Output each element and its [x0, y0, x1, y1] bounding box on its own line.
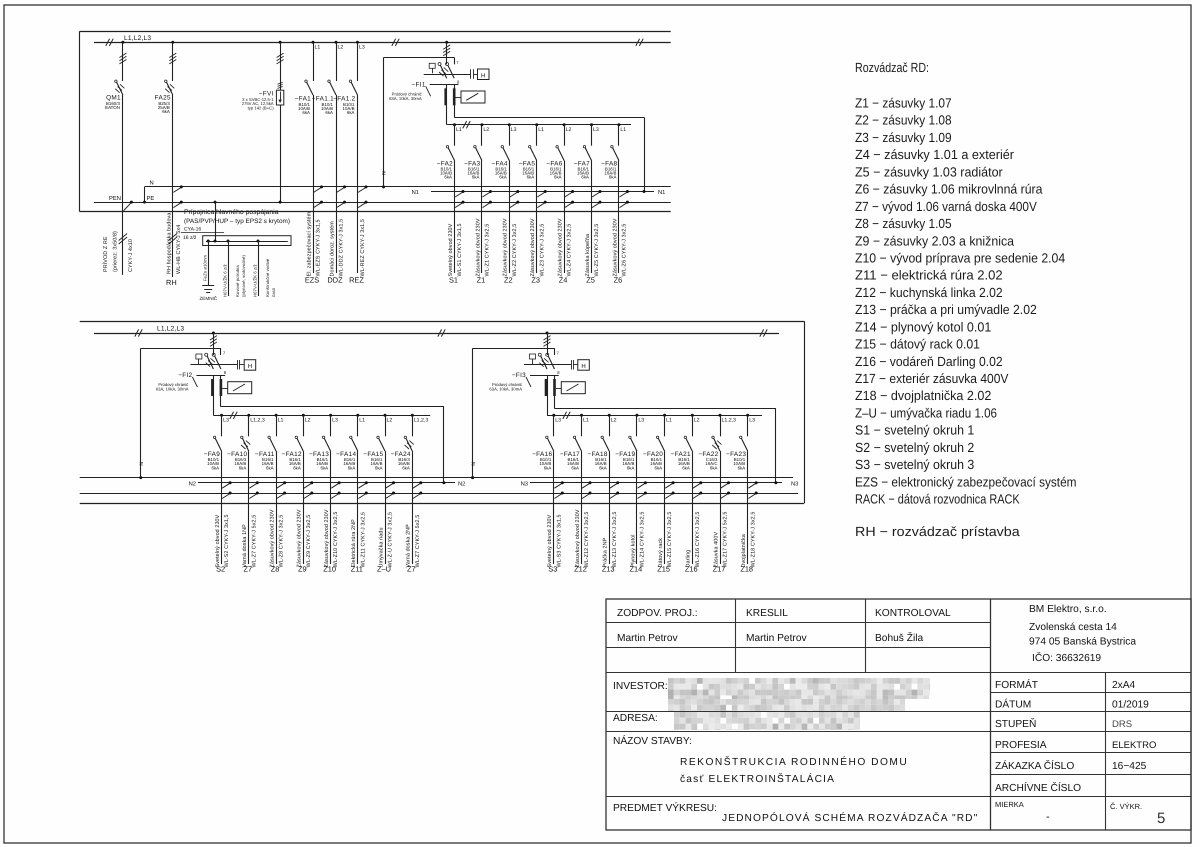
bus N3 — [521, 481, 799, 488]
title block field STUPEŇ — [995, 718, 1132, 730]
svg-text:Z18: Z18 — [740, 565, 753, 574]
svg-text:Z2: Z2 — [504, 276, 513, 285]
bus L1,L2,L3 (row 1) — [94, 35, 671, 46]
svg-text:WL-Z15 CYKY-J 3x2,5: WL-Z15 CYKY-J 3x2,5 — [667, 512, 673, 568]
svg-text:Z11 − elektrická rúra 2.02: Z11 − elektrická rúra 2.02 — [855, 268, 1003, 283]
svg-text:L3: L3 — [593, 127, 599, 133]
svg-text:N2: N2 — [458, 481, 465, 488]
svg-text:REKONŠTRUKCIA RODINNÉHO DOMU: REKONŠTRUKCIA RODINNÉHO DOMU — [680, 756, 908, 768]
legend entry Z2 — [855, 113, 952, 128]
breaker FA1.2 feeding REZ — [333, 41, 367, 285]
svg-text:N3: N3 — [521, 481, 528, 488]
svg-text:KONTROLOVAL: KONTROLOVAL — [875, 608, 951, 619]
breaker FA18 output Z13 — [588, 414, 620, 574]
title block field KONTROLOVAL — [875, 608, 951, 644]
svg-text:L1,L2,L3: L1,L2,L3 — [157, 326, 184, 333]
svg-text:Zásuvkový obvod 230V: Zásuvkový obvod 230V — [530, 218, 536, 276]
svg-text:Z16 − vodáreň Darling 0.02: Z16 − vodáreň Darling 0.02 — [855, 354, 1003, 369]
breaker FA14 output Z11 — [336, 414, 368, 574]
title block company address — [1029, 604, 1136, 664]
svg-text:WL-HB CYKY-J 5x4: WL-HB CYKY-J 5x4 — [176, 225, 182, 274]
svg-text:L2: L2 — [611, 418, 617, 424]
svg-text:Prípojnica hlavného pospájania: Prípojnica hlavného pospájania — [184, 209, 279, 216]
svg-text:PE: PE — [147, 196, 155, 202]
svg-text:WL-S1 CYKY-J 3x1,5: WL-S1 CYKY-J 3x1,5 — [457, 223, 463, 276]
svg-text:EZS − elektronický zabezpečova: EZS − elektronický zabezpečovací systém — [855, 474, 1077, 489]
svg-text:63A, 10kA, 30mA: 63A, 10kA, 30mA — [389, 96, 422, 101]
svg-text:RH: RH — [166, 278, 177, 287]
legend entry Z10 — [855, 251, 1065, 266]
sub-bus after FI2 (row 2) — [213, 412, 430, 419]
svg-text:6kA: 6kA — [472, 175, 480, 180]
svg-text:6kA: 6kA — [293, 465, 301, 470]
svg-text:časti: časti — [271, 288, 276, 297]
svg-text:L1: L1 — [666, 418, 672, 424]
svg-text:WL-Z13 CYKY-J 3x2,5: WL-Z13 CYKY-J 3x2,5 — [612, 512, 618, 568]
svg-text:ZEMNIČ: ZEMNIČ — [200, 295, 218, 301]
svg-text:Z14: Z14 — [630, 565, 643, 574]
svg-text:Zásuvkový obvod 230V: Zásuvkový obvod 230V — [575, 509, 581, 567]
svg-text:6kA: 6kA — [710, 465, 718, 470]
svg-text:Zvolenská cesta 14: Zvolenská cesta 14 — [1029, 622, 1117, 633]
svg-text:Z11: Z11 — [351, 565, 363, 574]
residual current device FI3 — [471, 332, 778, 485]
svg-text:L3: L3 — [511, 127, 517, 133]
svg-text:N: N — [382, 171, 388, 175]
svg-text:S2 − svetelný okruh 2: S2 − svetelný okruh 2 — [855, 440, 974, 455]
svg-text:NÁZOV STAVBY:: NÁZOV STAVBY: — [613, 735, 692, 747]
svg-text:Z12: Z12 — [574, 565, 587, 574]
breaker FA20 output Z15 — [643, 414, 675, 574]
title block field ZÁKAZKA ČÍSLO — [995, 760, 1147, 772]
svg-text:Svetelný obvod 230V: Svetelný obvod 230V — [448, 223, 454, 276]
svg-text:L1,2,3: L1,2,3 — [722, 418, 737, 424]
svg-text:Z10: Z10 — [323, 565, 336, 574]
breaker FA2 output S1 — [437, 123, 465, 284]
equipotential busbar Prípojnica hlavného pospájania — [181, 201, 291, 246]
svg-text:WL-EZS CYKY-J 3x1,5: WL-EZS CYKY-J 3x1,5 — [316, 219, 322, 276]
svg-text:L1,2,3: L1,2,3 — [250, 418, 265, 424]
svg-text:Zásuvkový obvod 230V: Zásuvkový obvod 230V — [475, 218, 481, 276]
svg-text:Zásuvka kúpeľňa: Zásuvka kúpeľňa — [585, 234, 591, 277]
svg-text:WL-Z8 CYKY-J 3x2,5: WL-Z8 CYKY-J 3x2,5 — [279, 515, 285, 568]
svg-text:L3: L3 — [638, 418, 644, 424]
title block grid — [606, 599, 1191, 830]
svg-text:WL-Z9 CYKY-J 3x2,5: WL-Z9 CYKY-J 3x2,5 — [306, 515, 312, 568]
svg-text:Z17: Z17 — [713, 565, 726, 574]
svg-text:L1: L1 — [583, 418, 589, 424]
svg-text:974 05 Banská Bystrica: 974 05 Banská Bystrica — [1029, 637, 1136, 648]
svg-text:6kA: 6kA — [609, 175, 617, 180]
ground electrode ZEMNIČ — [200, 240, 218, 301]
legend entry Z18 — [855, 388, 991, 403]
svg-text:6kA: 6kA — [266, 465, 274, 470]
breaker FA3 output Z1 — [464, 123, 492, 284]
svg-text:WL-Z3 CYKY-J 3x2,5: WL-Z3 CYKY-J 3x2,5 — [539, 224, 545, 277]
svg-text:16−425: 16−425 — [1112, 761, 1147, 772]
svg-text:REZ: REZ — [349, 276, 364, 285]
breaker FA5 output Z3 — [519, 123, 547, 284]
svg-text:−FI3: −FI3 — [512, 372, 526, 379]
svg-text:63A, 10kA, 30mA: 63A, 10kA, 30mA — [489, 387, 522, 392]
bus N (row 1) — [143, 180, 671, 203]
svg-text:16 z/ž: 16 z/ž — [183, 235, 197, 241]
svg-text:L1,L2,L3: L1,L2,L3 — [124, 35, 151, 42]
bus N2 — [189, 481, 466, 488]
svg-text:Z7: Z7 — [243, 565, 252, 574]
svg-text:6kA: 6kA — [527, 175, 535, 180]
bus PE / PEN (row 1) — [94, 196, 671, 202]
title block field ARCHÍVNE ČÍSLO — [995, 782, 1081, 794]
svg-text:N1: N1 — [412, 190, 419, 196]
svg-text:DÁTUM: DÁTUM — [995, 699, 1031, 711]
svg-text:BM Elektro, s.r.o.: BM Elektro, s.r.o. — [1029, 604, 1107, 615]
surge arrester FVI — [242, 41, 284, 204]
svg-text:H: H — [581, 363, 585, 370]
svg-text:Konštrukčné vodivé: Konštrukčné vodivé — [265, 258, 270, 297]
svg-text:WL-S3 CYKY-J 3x1,5: WL-S3 CYKY-J 3x1,5 — [556, 514, 562, 567]
svg-text:N: N — [150, 180, 154, 186]
svg-text:L1: L1 — [278, 418, 284, 424]
svg-text:Elektrická rúra 2NP: Elektrická rúra 2NP — [351, 519, 357, 568]
svg-text:-: - — [1046, 811, 1050, 823]
svg-text:6kA: 6kA — [554, 175, 562, 180]
svg-text:RH hospodárska budova: RH hospodárska budova — [166, 213, 172, 274]
svg-text:6kA: 6kA — [347, 110, 355, 115]
svg-text:WL-Z11 CYKY-J 3x2,5: WL-Z11 CYKY-J 3x2,5 — [360, 512, 366, 568]
svg-text:Z4 − zásuvky 1.01 a exteriér: Z4 − zásuvky 1.01 a exteriér — [855, 147, 1015, 162]
breaker FA17 output Z12 — [560, 414, 592, 574]
svg-text:01/2019: 01/2019 — [1112, 700, 1149, 711]
svg-text:Z2 − zásuvky 1.08: Z2 − zásuvky 1.08 — [855, 113, 952, 128]
bus L1,L2,L3 (row 2) — [94, 326, 779, 337]
svg-text:WL-Z6 CYKY-J 3x2,5: WL-Z6 CYKY-J 3x2,5 — [622, 224, 628, 277]
svg-text:ARCHÍVNE ČÍSLO: ARCHÍVNE ČÍSLO — [995, 782, 1081, 794]
svg-text:6kA: 6kA — [499, 175, 507, 180]
legend entry EZS — [855, 474, 1077, 489]
title block field Č. VÝKR. drawing number 5 — [1110, 802, 1165, 827]
svg-text:Rozvádzač RD:: Rozvádzač RD: — [855, 60, 929, 75]
svg-text:6kA: 6kA — [444, 175, 452, 180]
legend entry Z4 — [855, 147, 1015, 162]
legend heading Rozvádzač RD — [855, 60, 929, 75]
svg-text:PRÍVOD Z RE: PRÍVOD Z RE — [102, 236, 109, 272]
svg-text:Z9 − zásuvky 2.03 a knižnica: Z9 − zásuvky 2.03 a knižnica — [855, 233, 1015, 248]
svg-text:6kA: 6kA — [599, 465, 607, 470]
svg-text:WL-Z16 CYKY-J 3x2,5: WL-Z16 CYKY-J 3x2,5 — [695, 512, 701, 568]
svg-text:N: N — [471, 462, 477, 466]
svg-text:WL-Z5 CYKY-J 3x2,5: WL-Z5 CYKY-J 3x2,5 — [594, 224, 600, 277]
title block field ZODPOV. PROJ. — [617, 608, 698, 644]
title block field MIERKA — [995, 800, 1050, 823]
svg-text:El. zabezpečovací systém: El. zabezpečovací systém — [306, 211, 312, 276]
svg-text:Zásuvkový obvod 230V: Zásuvkový obvod 230V — [270, 509, 276, 567]
legend entry Z1 — [855, 96, 952, 111]
svg-text:MIERKA: MIERKA — [995, 800, 1024, 809]
svg-text:S2: S2 — [216, 565, 225, 574]
svg-text:WL-S2 CYKY-J 3x1,5: WL-S2 CYKY-J 3x1,5 — [224, 514, 230, 567]
svg-text:WL-Z4 CYKY-J 3x2,5: WL-Z4 CYKY-J 3x2,5 — [567, 224, 573, 277]
legend entry Z14 — [855, 319, 991, 334]
svg-text:2xA4: 2xA4 — [1112, 680, 1136, 691]
svg-text:6kA: 6kA — [581, 175, 589, 180]
residual current device FI2 — [139, 332, 445, 485]
breaker FA1.1 feeding DDZ — [312, 41, 346, 285]
svg-text:STUPEŇ: STUPEŇ — [995, 718, 1036, 730]
legend entry Z3 — [855, 130, 952, 145]
breaker FA13 output Z10 — [309, 414, 341, 574]
svg-text:Dátový rack: Dátový rack — [658, 538, 664, 568]
svg-text:L3: L3 — [223, 418, 229, 424]
svg-text:ZODPOV. PROJ.:: ZODPOV. PROJ.: — [617, 608, 698, 619]
svg-text:FeZn ø10mm: FeZn ø10mm — [202, 254, 207, 281]
svg-text:ADRESA:: ADRESA: — [613, 713, 658, 724]
svg-text:L3: L3 — [749, 418, 755, 424]
svg-text:6kA: 6kA — [738, 465, 746, 470]
svg-text:L1: L1 — [315, 45, 321, 51]
title block field FORMÁT — [995, 679, 1136, 691]
svg-text:Martin Petrov: Martin Petrov — [617, 633, 678, 644]
svg-text:Z–U: Z–U — [377, 565, 391, 574]
svg-text:Z13: Z13 — [602, 565, 615, 574]
svg-text:Martin Petrov: Martin Petrov — [746, 633, 807, 644]
title block field ADRESA (redacted) — [613, 712, 860, 730]
legend entry Z6 — [855, 182, 1043, 197]
legend entry Z8 — [855, 216, 952, 231]
legend entry Z5 — [855, 164, 1003, 179]
title block field DÁTUM — [995, 699, 1149, 711]
svg-text:6kA: 6kA — [239, 465, 247, 470]
legend entry Z-U — [855, 406, 997, 421]
svg-text:L2: L2 — [305, 418, 311, 424]
svg-text:Zásuvkový obvod 230V: Zásuvkový obvod 230V — [612, 218, 618, 276]
svg-text:Domáci doroz. systém: Domáci doroz. systém — [329, 221, 335, 277]
svg-text:(plynové, vodovodné): (plynové, vodovodné) — [241, 254, 246, 297]
svg-text:Z13 − práčka a pri umývadle 2.: Z13 − práčka a pri umývadle 2.02 — [855, 302, 1037, 317]
legend entry Z17 — [855, 371, 1009, 386]
svg-text:PEN: PEN — [109, 196, 121, 202]
svg-text:CYKY-J 4x10: CYKY-J 4x10 — [128, 239, 134, 272]
svg-text:Z3: Z3 — [531, 276, 540, 285]
svg-text:Z1 − zásuvky 1.07: Z1 − zásuvky 1.07 — [855, 96, 952, 111]
svg-text:EATON: EATON — [105, 105, 120, 110]
title block field NÁZOV STAVBY — [613, 735, 908, 785]
svg-text:RACK − dátová rozvodnica RACK: RACK − dátová rozvodnica RACK — [855, 492, 1020, 507]
svg-text:IČO: 36632619: IČO: 36632619 — [1032, 652, 1101, 664]
svg-text:63A, 10kA, 30mA: 63A, 10kA, 30mA — [156, 387, 189, 392]
svg-text:6kA: 6kA — [544, 465, 552, 470]
svg-text:WL-Z18 CYKY-J 3x2,5: WL-Z18 CYKY-J 3x2,5 — [750, 512, 756, 568]
svg-text:L1: L1 — [359, 418, 365, 424]
legend entry Z11 — [855, 268, 1003, 283]
breaker FA8 output Z6 — [601, 123, 629, 284]
svg-text:Z5 − zásuvky 1.03 radiátor: Z5 − zásuvky 1.03 radiátor — [855, 164, 1003, 179]
svg-text:Z4: Z4 — [559, 276, 568, 285]
svg-text:WL-Z14 CYKY-J 3x2,5: WL-Z14 CYKY-J 3x2,5 — [640, 512, 646, 568]
svg-text:DRS: DRS — [1112, 719, 1132, 730]
svg-text:RH − rozvádzač prístavba: RH − rozvádzač prístavba — [855, 524, 1020, 539]
title block field INVESTOR (redacted) — [613, 678, 930, 711]
svg-text:JEDNOPÓLOVÁ SCHÉMA ROZVÁDZAČA: JEDNOPÓLOVÁ SCHÉMA ROZVÁDZAČA "RD" — [722, 812, 978, 824]
svg-text:S3 − svetelný okruh 3: S3 − svetelný okruh 3 — [855, 457, 974, 472]
svg-text:L1: L1 — [538, 127, 544, 133]
svg-text:S1 − svetelný okruh 1: S1 − svetelný okruh 1 — [855, 423, 974, 438]
svg-text:PREDMET VÝKRESU:: PREDMET VÝKRESU: — [613, 802, 717, 814]
svg-text:(PAS/PVP/HUP – typ EPS2 s kryt: (PAS/PVP/HUP – typ EPS2 s krytom) — [184, 218, 290, 225]
svg-text:L2: L2 — [338, 45, 344, 51]
svg-text:Z8 − zásuvky 1.05: Z8 − zásuvky 1.05 — [855, 216, 952, 231]
svg-text:Č. VÝKR.: Č. VÝKR. — [1110, 802, 1142, 811]
svg-text:Bohuš Žila: Bohuš Žila — [875, 632, 923, 644]
svg-text:FORMÁT: FORMÁT — [995, 679, 1038, 691]
svg-text:Z–U − umývačka riadu 1.06: Z–U − umývačka riadu 1.06 — [855, 406, 997, 421]
sub-bus after FI1 (row 1) — [447, 121, 632, 128]
svg-text:H07V-U/ŽK 6 z/ž: H07V-U/ŽK 6 z/ž — [252, 264, 257, 297]
svg-text:INVESTOR:: INVESTOR: — [613, 681, 668, 692]
svg-text:S3: S3 — [548, 565, 557, 574]
svg-text:WL-Z1 CYKY-J 3x2,5: WL-Z1 CYKY-J 3x2,5 — [485, 224, 491, 277]
legend entry S2 — [855, 440, 974, 455]
bonding conductor to structural parts — [252, 240, 276, 298]
breaker FA1 feeding EZS — [295, 41, 323, 285]
title block field KRESLIL — [746, 608, 807, 644]
svg-text:časť ELEKTROINŠTALÁCIA: časť ELEKTROINŠTALÁCIA — [680, 773, 835, 785]
svg-text:Z1: Z1 — [477, 276, 486, 285]
enclosure outline rozvádzač RD section 2 — [80, 321, 805, 503]
svg-text:WL-Z2 CYKY-J 3x2,5: WL-Z2 CYKY-J 3x2,5 — [512, 224, 518, 277]
breaker FA22 output Z17 — [698, 414, 736, 574]
breaker FA4 output Z2 — [491, 123, 519, 284]
svg-text:WL-Z17 CYKY-J 5x2,5: WL-Z17 CYKY-J 5x2,5 — [723, 512, 729, 568]
svg-text:6kA: 6kA — [571, 465, 579, 470]
main switch QM1 with incoming supply PRÍVOD Z RE — [102, 41, 134, 275]
bonding conductor to metal piping — [222, 240, 246, 298]
breaker FA6 output Z4 — [546, 123, 574, 284]
legend entry Z16 — [855, 354, 1003, 369]
legend entry Z12 — [855, 285, 1003, 300]
svg-text:N: N — [139, 462, 145, 466]
svg-text:6kA: 6kA — [402, 465, 410, 470]
svg-text:Dvojplatnička: Dvojplatnička — [741, 534, 747, 567]
legend entry Z7 — [855, 199, 1037, 214]
svg-text:6kA: 6kA — [655, 465, 663, 470]
svg-text:Zásuvkový obvod 230V: Zásuvkový obvod 230V — [503, 218, 509, 276]
svg-text:N2: N2 — [189, 481, 196, 488]
svg-text:H: H — [481, 73, 485, 80]
svg-text:L2: L2 — [483, 127, 489, 133]
breaker FA19 output Z14 — [615, 414, 647, 574]
svg-text:Svetelný obvod 230V: Svetelný obvod 230V — [547, 514, 553, 567]
svg-text:WL-Z12 CYKY-J 3x2,5: WL-Z12 CYKY-J 3x2,5 — [584, 512, 590, 568]
svg-text:6kA: 6kA — [212, 465, 220, 470]
svg-text:Z15: Z15 — [657, 565, 670, 574]
svg-text:Svetelný obvod 230V: Svetelný obvod 230V — [215, 514, 221, 567]
svg-text:EZS: EZS — [305, 276, 319, 285]
svg-text:Zásuvkový obvod 230V: Zásuvkový obvod 230V — [297, 509, 303, 567]
breaker FA23 output Z18 — [726, 414, 758, 574]
legend entry Z15 — [855, 337, 980, 352]
svg-text:Z6: Z6 — [614, 276, 623, 285]
svg-text:6kA: 6kA — [321, 465, 329, 470]
svg-text:Z8: Z8 — [271, 565, 280, 574]
svg-text:Práčka 2NP: Práčka 2NP — [603, 537, 609, 567]
bus PE (row 2) — [80, 493, 798, 495]
breaker FA21 output Z16 — [671, 414, 703, 574]
svg-text:typ 142 (B+C): typ 142 (B+C) — [248, 105, 275, 110]
svg-text:L3: L3 — [555, 418, 561, 424]
enclosure outline rozvádzač RD section 1 — [80, 31, 671, 211]
svg-text:L1: L1 — [620, 127, 626, 133]
breaker FA16 output S3 — [532, 414, 564, 574]
svg-text:Z12 − kuchynská linka 2.02: Z12 − kuchynská linka 2.02 — [855, 285, 1003, 300]
svg-text:L2: L2 — [387, 418, 393, 424]
svg-text:6kA: 6kA — [302, 110, 310, 115]
svg-text:H: H — [248, 363, 252, 370]
svg-text:WL-Z-U CYKY-J 3x2,5: WL-Z-U CYKY-J 3x2,5 — [388, 512, 394, 568]
svg-text:L3: L3 — [332, 418, 338, 424]
svg-text:KRESLIL: KRESLIL — [746, 608, 788, 619]
svg-text:6kA: 6kA — [348, 465, 356, 470]
breaker FA9 output S2 — [204, 414, 232, 574]
svg-text:Z10 − vývod príprava pre seden: Z10 − vývod príprava pre sedenie 2.04 — [855, 251, 1065, 266]
svg-text:Z7: Z7 — [407, 565, 416, 574]
sub-bus after FI3 (row 3) — [547, 412, 762, 419]
svg-text:L2: L2 — [694, 418, 700, 424]
breaker FA7 output Z5 — [574, 123, 602, 284]
svg-text:N1: N1 — [658, 190, 665, 196]
svg-text:WL-Z7 CYKY-J 5x2,5: WL-Z7 CYKY-J 5x2,5 — [251, 515, 257, 568]
svg-text:PROFESIA: PROFESIA — [995, 740, 1047, 751]
svg-text:DDZ: DDZ — [327, 276, 343, 285]
svg-text:WL-REZ CYKY-J 3x1,5: WL-REZ CYKY-J 3x1,5 — [360, 219, 366, 276]
svg-text:6kA: 6kA — [325, 110, 333, 115]
breaker FA12 output Z9 — [282, 414, 314, 574]
svg-text:Z16: Z16 — [685, 565, 698, 574]
legend entry Z9 — [855, 233, 1015, 248]
svg-text:6kA: 6kA — [682, 465, 690, 470]
svg-text:−FI2: −FI2 — [178, 372, 192, 379]
svg-text:Zásuvkový obvod 230V: Zásuvkový obvod 230V — [558, 218, 564, 276]
svg-text:CYA-16: CYA-16 — [184, 227, 201, 233]
legend entry S3 — [855, 457, 974, 472]
breaker FA11 output Z8 — [255, 414, 286, 574]
svg-text:6kA: 6kA — [162, 109, 170, 114]
legend entry S1 — [855, 423, 974, 438]
svg-text:Plynový kotol: Plynový kotol — [630, 534, 636, 567]
svg-text:5: 5 — [1157, 810, 1165, 827]
title block field PREDMET VÝKRESU — [613, 802, 978, 824]
svg-text:Varná doska 1NP: Varná doska 1NP — [242, 524, 248, 568]
svg-text:ZÁKAZKA ČÍSLO: ZÁKAZKA ČÍSLO — [995, 760, 1074, 772]
svg-text:H07V-U/ŽK 6 z/ž: H07V-U/ŽK 6 z/ž — [222, 264, 227, 297]
bus N1 (row 1) — [412, 190, 666, 196]
title block field PROFESIA — [995, 740, 1156, 751]
svg-text:Z6 − zásuvky 1.06 mikrovlnná r: Z6 − zásuvky 1.06 mikrovlnná rúra — [855, 182, 1043, 197]
svg-text:Z17 − exteriér zásuvka 400V: Z17 − exteriér zásuvka 400V — [855, 371, 1009, 386]
svg-text:WL-Z7 CYKY-J 5x2,5: WL-Z7 CYKY-J 5x2,5 — [415, 515, 421, 568]
legend entry Z13 — [855, 302, 1037, 317]
svg-text:−FI1: −FI1 — [412, 81, 426, 88]
svg-text:Z9: Z9 — [298, 565, 307, 574]
breaker FA24 output Z7 — [391, 414, 429, 574]
svg-text:Z5: Z5 — [586, 276, 595, 285]
legend entry RH — [855, 524, 1020, 539]
legend entry RACK — [855, 492, 1020, 507]
svg-text:L3: L3 — [359, 45, 365, 51]
svg-text:Z15 − dátový rack 0.01: Z15 − dátový rack 0.01 — [855, 337, 980, 352]
svg-text:Varná doska 2NP: Varná doska 2NP — [406, 524, 412, 568]
svg-text:Zásuvka 400V: Zásuvka 400V — [713, 532, 719, 568]
